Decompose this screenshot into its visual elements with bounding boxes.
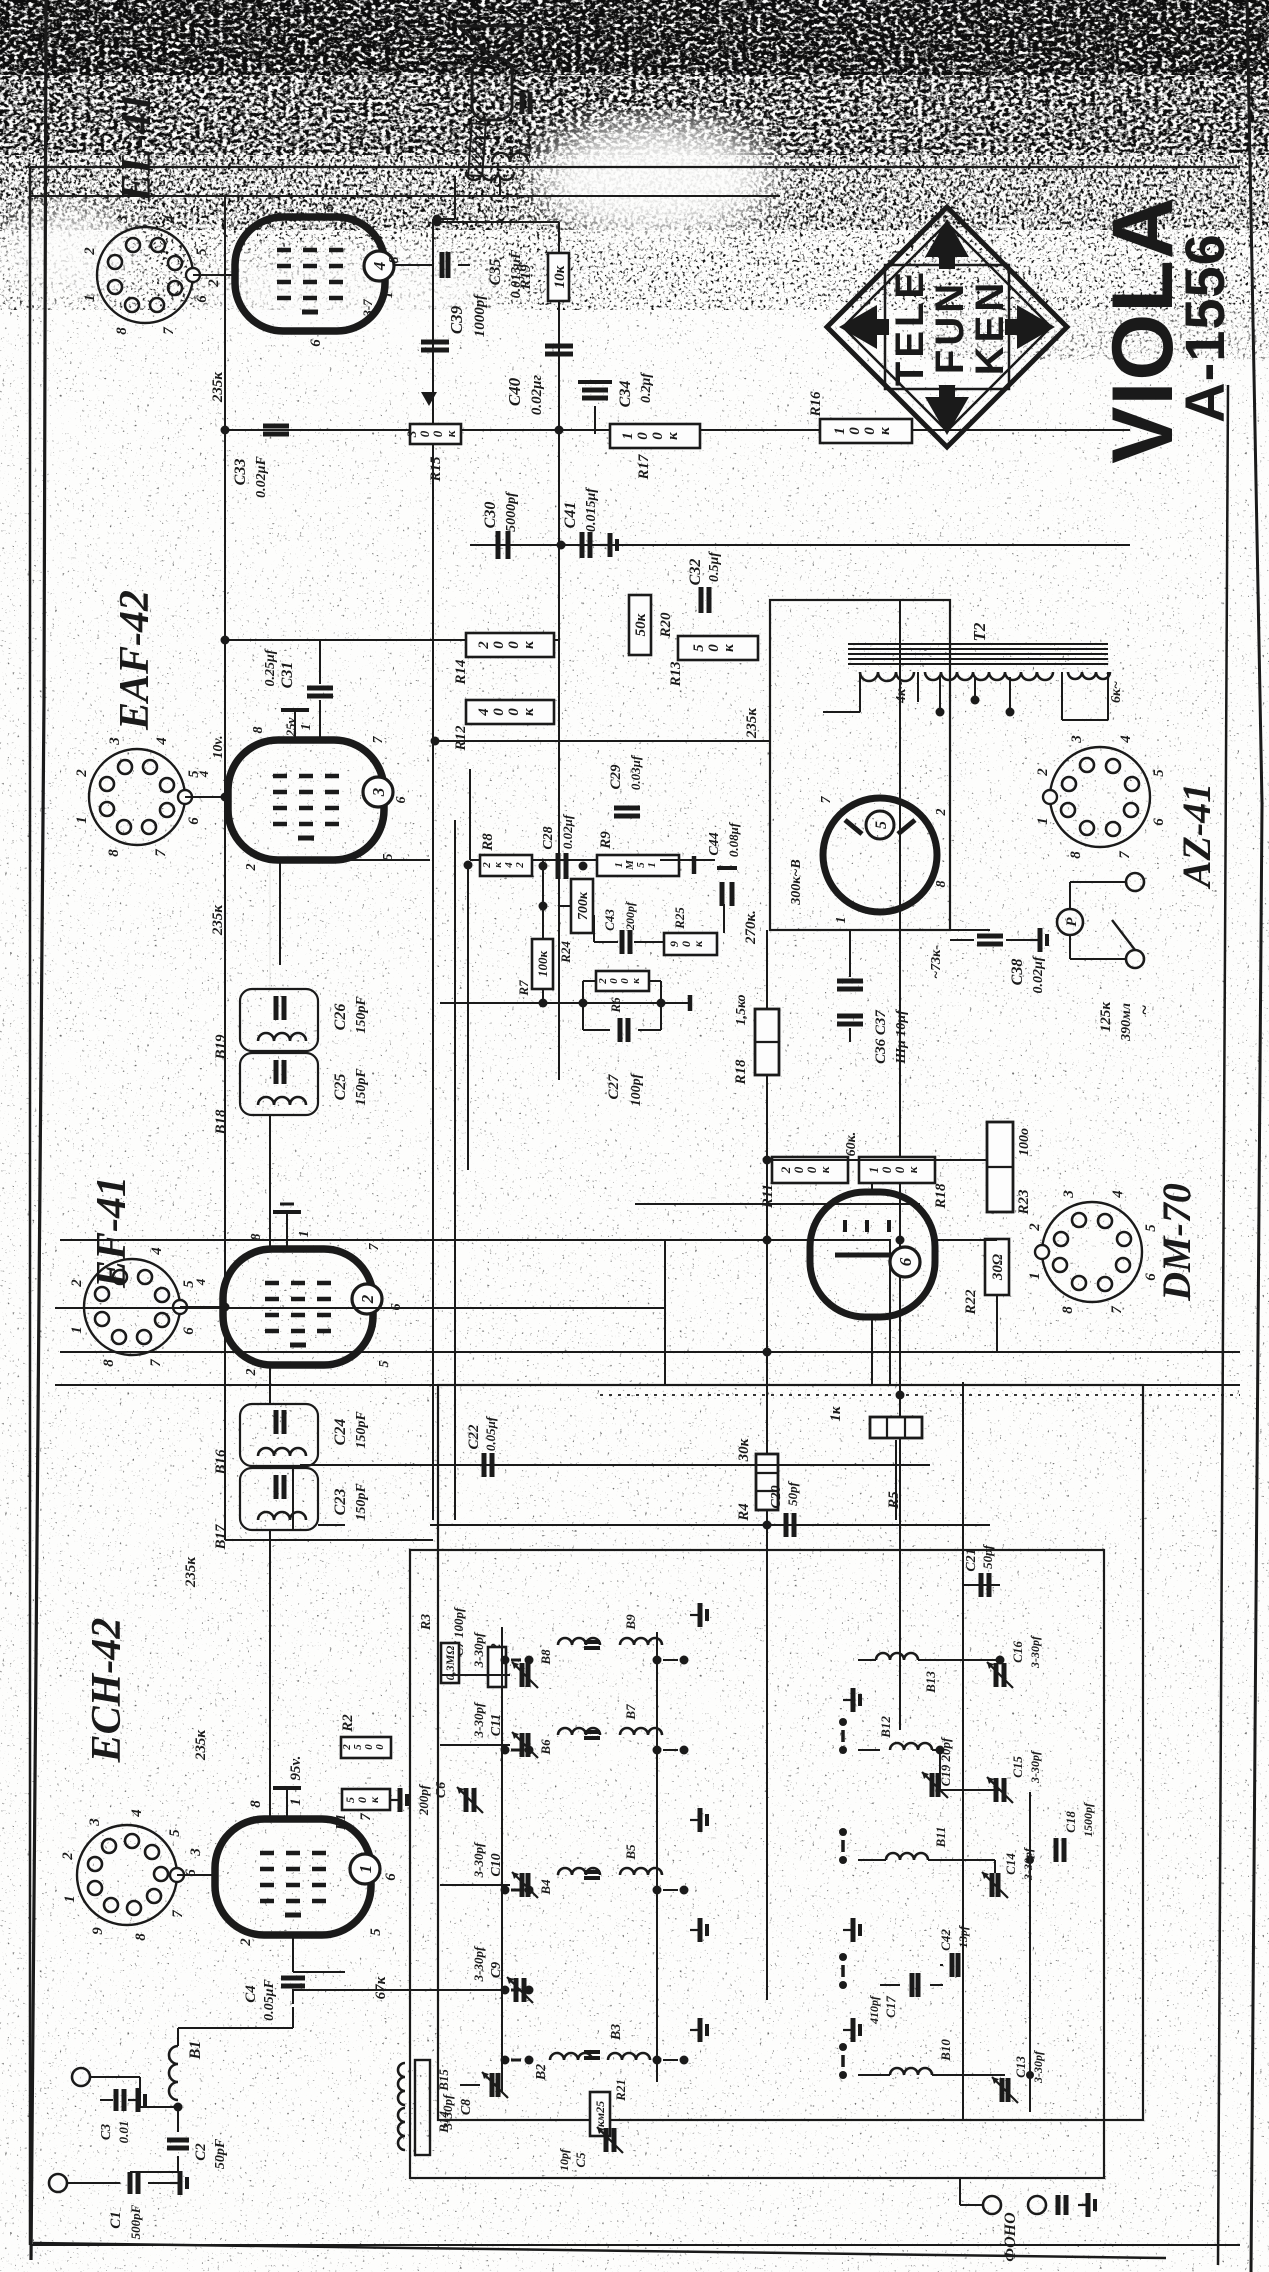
- wire grid bus X1842: [223, 429, 1130, 431]
- svg-text:100к: 100к: [535, 951, 550, 978]
- wire ECH-42 grid: [292, 1934, 294, 1972]
- svg-text:0.05μf: 0.05μf: [483, 1415, 498, 1451]
- svg-text:1000рf: 1000рf: [472, 293, 488, 338]
- svg-text:8: 8: [934, 881, 949, 888]
- svg-text:B4: B4: [538, 1879, 553, 1896]
- svg-text:235к: 235к: [210, 372, 226, 404]
- svg-text:100рf: 100рf: [629, 1072, 644, 1106]
- svg-text:R23: R23: [1016, 1189, 1032, 1216]
- resistor R5 1k: [870, 1417, 922, 1438]
- tuner box mid: [438, 1385, 1143, 2120]
- ferrite antenna B15/B14: [415, 2060, 430, 2155]
- svg-text:EL-41: EL-41: [114, 92, 160, 203]
- resistor R8 2k4: [480, 855, 532, 876]
- svg-text:B17: B17: [213, 1524, 229, 1551]
- resistor R23 100: [987, 1122, 1013, 1212]
- resistor R2 2500: [341, 1737, 391, 1758]
- svg-text:R12: R12: [453, 725, 469, 752]
- svg-text:EF-41: EF-41: [89, 1176, 135, 1289]
- svg-text:50к: 50к: [343, 1796, 381, 1803]
- svg-text:10рf: 10рf: [557, 2148, 571, 2171]
- svg-text:200к: 200к: [597, 978, 642, 985]
- svg-text:3-30рf: 3-30рf: [471, 1945, 486, 1982]
- transformer T2 core: [848, 663, 1108, 665]
- svg-text:C30: C30: [482, 502, 499, 529]
- svg-text:8: 8: [1060, 1306, 1076, 1314]
- svg-text:EAF-42: EAF-42: [112, 590, 158, 731]
- wire bus X1632: [221, 639, 560, 641]
- svg-text:R6: R6: [608, 997, 623, 1014]
- svg-text:1: 1: [69, 1326, 85, 1334]
- svg-text:1к: 1к: [828, 1406, 844, 1422]
- svg-text:50pF: 50pF: [213, 2138, 228, 2169]
- svg-text:C33: C33: [232, 459, 249, 486]
- diode arrow R15: [421, 392, 437, 406]
- svg-text:2к42: 2к42: [481, 862, 526, 869]
- svg-text:C22: C22: [466, 1424, 482, 1450]
- svg-text:300к: 300к: [404, 430, 458, 438]
- svg-text:6: 6: [186, 817, 202, 825]
- resistor R25 90k: [664, 933, 717, 955]
- svg-text:T1: T1: [515, 141, 534, 160]
- resistor R21: [590, 2092, 610, 2136]
- capacitor C22 0.05uF: [482, 1453, 487, 1477]
- socket DM-70: [1042, 1202, 1142, 1302]
- svg-text:C24: C24: [332, 1419, 349, 1446]
- resistor R4 30k: [756, 1454, 778, 1510]
- wire X807 avc: [300, 1464, 930, 1466]
- svg-text:C27: C27: [606, 1074, 622, 1100]
- svg-text:B3: B3: [609, 2024, 624, 2041]
- wire T1 to R19 branch: [437, 221, 559, 223]
- svg-text:км25: км25: [593, 2101, 607, 2127]
- svg-text:~73к-: ~73к-: [929, 945, 944, 979]
- bottom frame line: [33, 2243, 1166, 2258]
- resistor R16b 100k: [820, 419, 912, 443]
- svg-text:1: 1: [381, 292, 396, 299]
- svg-text:B7: B7: [623, 1704, 638, 1721]
- wire bus X1412: [480, 859, 715, 861]
- svg-text:R3: R3: [419, 1614, 434, 1631]
- svg-text:C42: C42: [938, 1929, 953, 1951]
- svg-text:C38: C38: [1009, 959, 1026, 986]
- svg-text:235к: 235к: [744, 708, 760, 740]
- coil B2: [550, 2053, 592, 2060]
- svg-text:6: 6: [308, 339, 324, 347]
- pilot lamp P: [1057, 909, 1083, 935]
- capacitor C30 5000pF: [496, 531, 501, 559]
- svg-text:ФОНО: ФОНО: [1002, 2212, 1019, 2262]
- svg-text:C23: C23: [332, 1489, 349, 1516]
- speaker cap: [520, 92, 525, 114]
- svg-text:150рF: 150рF: [354, 996, 369, 1034]
- capacitor C31 0.25uF: [307, 694, 333, 699]
- coil B9: [620, 1638, 662, 1645]
- trimmer C16: [994, 1663, 999, 1687]
- resistor R24 700k: [571, 879, 593, 933]
- tube ECH-42: [215, 1819, 371, 1935]
- svg-text:90к: 90к: [667, 940, 705, 947]
- svg-text:C36 C37: C36 C37: [873, 1010, 889, 1064]
- mains switch: [1112, 920, 1135, 950]
- svg-text:400к: 400к: [476, 708, 537, 717]
- svg-text:3-7: 3-7: [360, 299, 375, 318]
- trimmer C15: [994, 1778, 999, 1802]
- svg-text:T2: T2: [970, 622, 989, 641]
- resistor C7 100pF: [488, 1647, 506, 1687]
- svg-text:0.01: 0.01: [116, 2121, 131, 2144]
- svg-text:9: 9: [90, 1927, 106, 1935]
- wires T2: [859, 672, 861, 712]
- svg-text:3: 3: [1061, 1190, 1077, 1199]
- IF transformer B8/B9 box2: [240, 989, 318, 1051]
- svg-text:R1: R1: [334, 1814, 349, 1831]
- svg-text:1: 1: [297, 1231, 312, 1238]
- svg-text:4: 4: [1110, 1190, 1126, 1199]
- ground bar detector: [680, 1002, 690, 1004]
- svg-text:5: 5: [321, 203, 337, 211]
- wire R5 bottom: [895, 1440, 897, 1520]
- svg-text:B19: B19: [213, 1034, 229, 1061]
- svg-text:C39: C39: [447, 305, 466, 334]
- svg-text:2: 2: [74, 769, 90, 778]
- resistor R12 400: [466, 700, 554, 724]
- svg-text:B12: B12: [878, 1716, 893, 1739]
- transformer T1 primary: [466, 172, 514, 180]
- svg-text:150рF: 150рF: [354, 1483, 369, 1521]
- svg-text:B1: B1: [187, 2041, 204, 2061]
- rectifier AZ-41: [823, 798, 937, 912]
- coil center caps: [584, 1646, 600, 1650]
- svg-text:0.03μf: 0.03μf: [628, 754, 643, 790]
- svg-text:3: 3: [102, 1247, 118, 1256]
- svg-text:100о: 100о: [1017, 1128, 1032, 1156]
- trimmer C10: [520, 1873, 525, 1897]
- transformer T1 secondary: [492, 153, 528, 162]
- svg-text:R2: R2: [340, 1714, 356, 1733]
- wire bus X920: [60, 1351, 1240, 1353]
- resistor R19 10k: [548, 253, 569, 301]
- coil B3: [608, 2053, 650, 2060]
- svg-text:8: 8: [1068, 851, 1084, 859]
- svg-text:C25: C25: [332, 1074, 349, 1101]
- svg-text:3-30рf: 3-30рf: [440, 2093, 455, 2130]
- wire Y559 screen: [558, 301, 560, 1080]
- capacitor C18 1500: [1054, 1838, 1059, 1862]
- wire fono: [960, 2204, 983, 2206]
- trimmer C12: [520, 1663, 525, 1687]
- wires tuner right half: [858, 1749, 880, 1751]
- capacitor C40 0.02uF: [545, 352, 573, 357]
- wire bus X1032: [60, 1239, 770, 1241]
- svg-text:B6: B6: [538, 1739, 553, 1756]
- capacitor C20 50pF: [784, 1513, 789, 1537]
- svg-text:B16: B16: [213, 1449, 229, 1476]
- svg-text:30Ω: 30Ω: [990, 1254, 1006, 1281]
- wire T1 drop: [433, 218, 437, 220]
- svg-text:C2: C2: [193, 2143, 209, 2161]
- wire bus X1068: [635, 1203, 920, 1205]
- IF transformer B16/B17 box1: [240, 1468, 318, 1530]
- svg-text:KEN: KEN: [968, 279, 1012, 375]
- svg-text:7: 7: [371, 736, 386, 744]
- capacitor C17 410pF: [910, 1973, 915, 1997]
- svg-text:2: 2: [69, 1279, 85, 1288]
- svg-text:2500: 2500: [341, 1744, 386, 1751]
- svg-text:0.02μг: 0.02μг: [529, 374, 545, 415]
- svg-text:5: 5: [194, 248, 210, 256]
- svg-text:4к~: 4к~: [894, 681, 909, 704]
- resistor R15 300k: [410, 424, 461, 444]
- svg-text:C15: C15: [1010, 1756, 1025, 1778]
- capacitor C38 0.02uF: [977, 942, 1003, 947]
- svg-text:7: 7: [1117, 851, 1133, 859]
- svg-text:B10: B10: [938, 2039, 953, 2062]
- svg-text:2: 2: [1027, 1223, 1043, 1232]
- svg-text:1: 1: [356, 1865, 375, 1874]
- svg-text:5: 5: [1151, 769, 1167, 777]
- svg-text:4: 4: [162, 215, 178, 224]
- wire antenna A1: [90, 2076, 140, 2078]
- wire IF1 caps to ground: [318, 1524, 345, 1526]
- capacitor C33 0.02uF: [263, 432, 289, 437]
- ground bar R9: [692, 856, 697, 874]
- FONO terminal 2: [1028, 2196, 1046, 2214]
- svg-text:0.2μf: 0.2μf: [639, 372, 654, 403]
- tuner common line Y502: [501, 1627, 503, 2092]
- svg-text:7: 7: [819, 796, 834, 804]
- svg-text:R24: R24: [558, 941, 573, 964]
- trimmer C11: [520, 1733, 525, 1757]
- svg-text:6: 6: [383, 1873, 399, 1881]
- capacitor C21 50pF: [979, 1573, 984, 1597]
- svg-text:4: 4: [149, 1247, 165, 1256]
- svg-text:5: 5: [873, 821, 890, 829]
- svg-text:B5: B5: [623, 1844, 638, 1861]
- svg-text:125к: 125к: [1098, 1002, 1114, 1033]
- wire IF1 to EF41: [269, 1365, 271, 1404]
- grid cap EAF-42: [294, 710, 296, 738]
- transformer T2 heater: [1068, 672, 1110, 679]
- svg-text:1: 1: [834, 917, 849, 924]
- grid cap ECH-42: [286, 1788, 288, 1816]
- svg-text:3-30рf: 3-30рf: [1021, 1847, 1035, 1881]
- wire bus X887 long: [55, 1384, 1240, 1386]
- svg-text:6: 6: [181, 1327, 197, 1335]
- svg-text:5: 5: [167, 1829, 183, 1837]
- svg-text:8: 8: [251, 727, 266, 734]
- resistor R16 1.5k: [755, 1009, 779, 1075]
- svg-text:2: 2: [358, 1294, 377, 1304]
- svg-text:R4: R4: [736, 1503, 752, 1522]
- svg-text:R20: R20: [658, 612, 674, 639]
- svg-text:C21: C21: [964, 1548, 979, 1571]
- svg-text:5: 5: [377, 1361, 392, 1368]
- svg-text:0.05μF: 0.05μF: [262, 1979, 277, 2021]
- capacitor C3 0.01: [114, 2089, 119, 2111]
- svg-text:2: 2: [238, 1938, 254, 1947]
- svg-text:C44: C44: [707, 832, 722, 855]
- tuner vertical wires: [460, 2084, 480, 2086]
- resistor R6 200k: [596, 971, 649, 991]
- svg-text:1: 1: [1027, 1272, 1043, 1280]
- svg-text:C3: C3: [99, 2124, 114, 2140]
- switch contacts column Y840: [839, 2071, 847, 2079]
- svg-text:3: 3: [188, 1848, 204, 1857]
- coil B13: [876, 1653, 918, 1660]
- svg-text:0.5μf: 0.5μf: [707, 551, 722, 582]
- svg-text:6: 6: [1151, 818, 1167, 826]
- svg-text:R25: R25: [672, 907, 687, 930]
- svg-text:TELE: TELE: [888, 268, 932, 386]
- svg-text:C4: C4: [243, 1985, 259, 2003]
- capacitor C35 0.013uF: [440, 252, 445, 278]
- svg-text:60к.: 60к.: [844, 1132, 859, 1157]
- loop R6 C27: [582, 981, 584, 1003]
- wire bus X964: [55, 1307, 665, 1309]
- svg-text:R21: R21: [613, 2079, 628, 2102]
- tube EF-41: [223, 1249, 373, 1365]
- tuner box outer: [410, 1550, 1104, 2178]
- IF transformer B8/B9 box1: [240, 1053, 318, 1115]
- svg-text:6: 6: [389, 1304, 404, 1311]
- svg-text:8: 8: [249, 1234, 264, 1241]
- resistor R13 50k: [678, 636, 758, 660]
- transformer T1 core: [468, 123, 486, 176]
- svg-text:4: 4: [129, 1809, 145, 1818]
- svg-text:2: 2: [1035, 768, 1051, 777]
- capacitor fono: [1056, 2195, 1061, 2215]
- tube DM-70: [810, 1192, 935, 1317]
- resistor R20 50k: [629, 595, 651, 655]
- svg-text:3: 3: [1069, 735, 1085, 744]
- svg-text:3-30рf: 3-30рf: [471, 1701, 486, 1738]
- svg-text:95v.: 95v.: [288, 1756, 304, 1781]
- svg-text:5000рf: 5000рf: [504, 491, 519, 532]
- svg-text:0.25μf: 0.25μf: [263, 648, 278, 686]
- capacitor C1 500pF: [67, 2182, 120, 2184]
- wire EF41 to IF2: [269, 1115, 271, 1249]
- resistor R7 100k: [532, 939, 553, 989]
- capacitor C41 0.015uF: [580, 532, 585, 558]
- svg-text:235к: 235к: [193, 1730, 209, 1762]
- wire EAF grid: [269, 860, 271, 989]
- wire EL socket: [193, 274, 235, 276]
- svg-text:50рf: 50рf: [980, 1543, 995, 1569]
- svg-text:C32: C32: [687, 559, 704, 586]
- svg-text:1: 1: [82, 294, 98, 302]
- svg-text:3-30рf: 3-30рf: [471, 1631, 486, 1668]
- coil B10: [890, 2068, 932, 2075]
- svg-text:3: 3: [107, 737, 123, 746]
- svg-text:4: 4: [196, 770, 211, 778]
- svg-text:5: 5: [1143, 1224, 1159, 1232]
- wire grid bus Y433: [432, 219, 434, 1520]
- svg-text:3-30рf: 3-30рf: [1031, 2050, 1045, 2084]
- svg-text:R14: R14: [453, 659, 469, 686]
- svg-text:150рF: 150рF: [354, 1068, 369, 1106]
- svg-text:7: 7: [358, 1813, 374, 1821]
- capacitor C28 0.02uF: [556, 853, 561, 879]
- svg-text:C6: C6: [434, 1782, 449, 1798]
- svg-text:~: ~: [1134, 1005, 1154, 1015]
- svg-text:4: 4: [1118, 735, 1134, 744]
- svg-text:R5: R5: [886, 1491, 902, 1510]
- wire bus Y770: [766, 930, 768, 2000]
- wire bus Y900: [899, 600, 901, 1730]
- capacitor C43 200pF: [620, 930, 625, 954]
- svg-text:2: 2: [934, 809, 949, 817]
- mains terminal 1: [1126, 873, 1144, 891]
- svg-text:C35: C35: [487, 259, 504, 286]
- svg-text:C40: C40: [505, 377, 524, 406]
- indicator box DM70: [665, 1240, 890, 1385]
- capacitor C39 1000pF: [421, 348, 449, 353]
- coil B4: [558, 1868, 600, 1875]
- capacitor C29 0.03uF: [614, 814, 640, 819]
- svg-text:0.08μf: 0.08μf: [726, 821, 741, 857]
- svg-text:8: 8: [101, 1359, 117, 1367]
- coil B8: [558, 1638, 600, 1645]
- ground R1: [390, 1799, 400, 1801]
- svg-text:ECH-42: ECH-42: [84, 1618, 130, 1764]
- svg-text:4: 4: [193, 1278, 208, 1286]
- svg-text:1: 1: [299, 724, 314, 731]
- svg-text:500pF: 500pF: [128, 2204, 143, 2239]
- capacitor C44 0.08uF: [720, 882, 725, 906]
- svg-text:R8: R8: [480, 833, 496, 852]
- svg-text:150рF: 150рF: [354, 1411, 369, 1449]
- svg-text:3: 3: [87, 1818, 103, 1827]
- svg-text:1500рf: 1500рf: [1081, 1802, 1095, 1837]
- ground symbols tuner: [690, 2029, 700, 2031]
- svg-text:A-1556: A-1556: [1173, 233, 1236, 423]
- svg-text:7: 7: [161, 327, 177, 335]
- svg-text:7: 7: [367, 1243, 382, 1251]
- svg-text:2: 2: [60, 1852, 76, 1861]
- svg-text:1: 1: [62, 1895, 78, 1903]
- svg-text:B18: B18: [213, 1109, 229, 1136]
- svg-text:50к: 50к: [633, 613, 649, 636]
- svg-text:6: 6: [194, 295, 210, 303]
- svg-text:C41: C41: [562, 502, 579, 529]
- svg-text:C29: C29: [608, 764, 624, 790]
- FONO terminal 1: [983, 2196, 1001, 2214]
- wire EAF to detector: [340, 859, 430, 861]
- svg-text:B13: B13: [923, 1671, 938, 1694]
- svg-text:8: 8: [248, 1800, 264, 1808]
- right page border: [1247, 0, 1262, 2272]
- svg-text:2: 2: [82, 247, 98, 256]
- svg-text:C17: C17: [883, 1996, 898, 2018]
- svg-text:R11: R11: [760, 1184, 776, 1209]
- capacitor C27 100pF: [618, 1018, 623, 1042]
- socket EF-41: [84, 1259, 180, 1355]
- coil B7: [620, 1728, 662, 1735]
- schematic frame: [29, 167, 32, 2245]
- tube EL-41: [235, 217, 385, 331]
- wire B1 to C4: [177, 2028, 179, 2046]
- svg-text:C16: C16: [1010, 1641, 1025, 1663]
- svg-text:8: 8: [106, 849, 122, 857]
- transformer T2 secondary HV: [925, 672, 1053, 680]
- wires power: [1070, 881, 1126, 883]
- svg-text:C20: C20: [769, 1485, 784, 1508]
- svg-text:5: 5: [368, 1928, 384, 1936]
- T2 tap wires: [939, 677, 941, 712]
- svg-text:0.02μf: 0.02μf: [1031, 955, 1046, 993]
- svg-text:C14: C14: [1003, 1853, 1018, 1875]
